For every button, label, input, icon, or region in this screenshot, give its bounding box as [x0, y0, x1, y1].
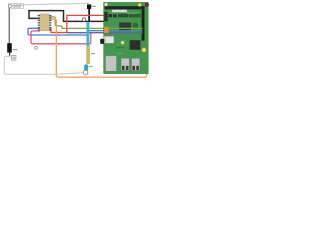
Raspberry Pi board	[100, 2, 149, 73]
wire pink CS (IC to purple net)	[31, 31, 91, 44]
junction node on black wire	[82, 18, 85, 21]
wire grey bottom (mic to LED cathode)	[4, 56, 83, 74]
USB jack 1	[121, 58, 130, 70]
header strip right vertical	[142, 9, 145, 40]
wires over Pi: green/blue/purple to right header	[104, 27, 143, 29]
capacitor dark red top-right	[145, 3, 149, 7]
sensor SPK1 black body top	[87, 4, 91, 9]
wire grey top (note box to sensor SPK1)	[23, 3, 89, 4]
wire tip red at Pi	[104, 15, 106, 17]
RAM chip	[118, 14, 128, 18]
small chip row	[109, 14, 112, 17]
wire green MISO (IC to Pi header)	[49, 17, 142, 29]
SoC chip B	[130, 40, 141, 50]
Ethernet jack	[106, 56, 117, 72]
USB jack 2	[131, 58, 140, 70]
wire lead sensor down to ground	[88, 9, 90, 22]
audio jack	[100, 39, 104, 44]
label sensor	[92, 6, 96, 7]
LED yellow mid-right	[142, 48, 146, 52]
note/label box	[8, 4, 23, 9]
mounting hole top-right yellow	[138, 3, 141, 6]
IC U1 MCP3008 body	[40, 14, 50, 31]
bendpoint circle mid-left	[35, 47, 38, 50]
LED cathode bendpoint circle	[83, 70, 88, 75]
SoC chip A	[119, 22, 131, 31]
IC pins left	[38, 15, 40, 31]
microphone MK1 body	[7, 43, 12, 52]
label resistor value	[91, 53, 95, 54]
label LED	[89, 66, 92, 67]
IC pins right	[49, 15, 51, 31]
resistor R1 220 ohm	[86, 46, 90, 64]
display ZIF connector left	[103, 36, 114, 43]
terminal square	[12, 56, 16, 61]
mounting hole mid	[121, 41, 124, 44]
mounting hole top-left	[104, 3, 107, 6]
wire cyan (ground junction to resistor)	[87, 22, 90, 46]
GPIO header strip top	[105, 6, 145, 9]
wire blue MOSI (IC to Pi header)	[28, 28, 143, 35]
DSI connector left	[104, 12, 108, 21]
wire orange CH0 loop (IC around bottom to Pi right)	[49, 19, 146, 77]
LED D1 blue	[84, 64, 88, 70]
wire lead microphone top	[8, 9, 10, 44]
wire purple SCLK (to Pi header right)	[67, 32, 143, 34]
Pi logo circle	[133, 23, 138, 28]
wire lead microphone bottom	[9, 53, 11, 57]
silkscreen text	[126, 13, 137, 14]
label microphone	[13, 49, 18, 50]
camera ZIF connector	[112, 10, 127, 13]
wire red 3V3 (IC to Pi)	[49, 15, 105, 32]
orange connector block on Pi left edge	[104, 27, 108, 33]
wire black ground loop (IC to Pi)	[29, 11, 106, 22]
